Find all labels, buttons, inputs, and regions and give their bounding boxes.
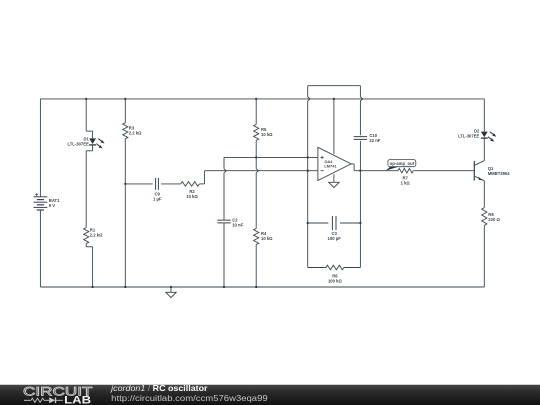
ground symbol op-amp: [329, 182, 339, 187]
logo squiggle wire mid: [44, 399, 49, 401]
junction dot output at box right: [359, 170, 361, 172]
svg-text:100 kΩ: 100 kΩ: [328, 278, 342, 283]
junction dot V+ top rail: [333, 98, 335, 100]
wire left rail (battery branch): [39, 99, 41, 197]
svg-text:9 V: 9 V: [49, 203, 55, 208]
net flag op-amp_out pointer: [386, 167, 398, 171]
svg-text:1 µF: 1 µF: [153, 196, 162, 201]
logo squiggle resistor: [31, 398, 44, 402]
wire R5 to plus line: [255, 140, 257, 157]
wire D1 jog bottom: [92, 145, 94, 150]
wire box left vertical lower: [307, 223, 309, 268]
logo squiggle wire left: [24, 399, 31, 401]
transistor Q1 emitter arrow: [478, 177, 482, 181]
wire D1 branch upper: [85, 99, 87, 131]
LED D2: [481, 132, 488, 138]
resistor R1: [84, 228, 89, 244]
junction dot box right at C3: [359, 222, 361, 224]
capacitor C10: [354, 137, 367, 140]
wire box right vertical bottom: [359, 223, 361, 268]
wire hop C2 over minus line: [224, 169, 226, 173]
wire hop box left over top rail: [308, 97, 310, 101]
resistor R4: [254, 229, 259, 245]
wire R3 branch upper: [124, 99, 126, 123]
svg-text:10 kΩ: 10 kΩ: [186, 194, 198, 199]
wire R8 to bottom rail: [483, 225, 485, 287]
wire R3 node to bottom rail: [124, 184, 126, 287]
svg-text:op-amp_out: op-amp_out: [390, 161, 415, 166]
wire C10 to output line: [359, 141, 361, 171]
junction dot plus line at R5 branch: [255, 156, 257, 158]
junction dot ground stub: [170, 286, 172, 288]
junction dot D1 top rail: [85, 98, 87, 100]
wire R5 branch upper: [255, 99, 257, 125]
LED D1: [89, 138, 96, 144]
wire Q1 emitter to R8: [483, 181, 485, 208]
wire D2 to Q1 collector: [483, 138, 485, 160]
wire R5 branch across minus line: [255, 157, 257, 168]
wire R1 to bottom jog: [85, 244, 87, 247]
junction dot R5 top rail: [255, 98, 257, 100]
resistor R3: [123, 123, 128, 139]
wire top box left vertical: [307, 86, 309, 97]
svg-text:10 kΩ: 10 kΩ: [261, 236, 273, 241]
net flag op-amp_out box: [388, 160, 416, 167]
svg-text:LM741: LM741: [324, 164, 337, 169]
svg-text:10 nF: 10 nF: [232, 223, 243, 228]
wire top box right vertical: [359, 86, 361, 97]
svg-text:2.2 kΩ: 2.2 kΩ: [129, 130, 142, 135]
wire C2 to bottom rail: [223, 223, 225, 287]
transistor Q1 collector: [474, 161, 484, 166]
wire R6 line left: [308, 267, 326, 269]
resistor R5: [254, 124, 259, 140]
junction dot R3 bottom rail: [124, 286, 126, 288]
transistor Q1 base bar: [473, 161, 475, 181]
resistor R6: [326, 265, 344, 270]
wire ground stub bottom: [170, 287, 172, 292]
svg-text:220 Ω: 220 Ω: [488, 217, 500, 222]
wire box left vertical mid: [307, 157, 309, 223]
svg-text:100 pF: 100 pF: [328, 236, 342, 241]
wire R7 to Q1 base: [413, 170, 474, 172]
wire top rail: [40, 98, 484, 100]
LED D1 emission arrows: [98, 139, 103, 143]
resistor R8: [482, 208, 487, 226]
junction dot plus line at box left: [307, 156, 309, 158]
junction dot R3/C9 node: [124, 183, 126, 185]
svg-text:LTL-307EE: LTL-307EE: [67, 142, 89, 147]
wire op-amp V+ stub: [333, 99, 335, 154]
svg-text:2.2 kΩ: 2.2 kΩ: [90, 232, 103, 237]
wire D1 jog top: [86, 130, 92, 132]
wire minus input line: [205, 170, 318, 172]
wire R6 line right: [344, 267, 361, 269]
svg-text:10 kΩ: 10 kΩ: [261, 132, 273, 137]
svg-text:LAB: LAB: [64, 395, 91, 405]
svg-text:jcordon1 / RC oscillator: jcordon1 / RC oscillator: [110, 384, 208, 393]
junction dot R3 top rail: [124, 98, 126, 100]
wire box right vertical lower: [359, 171, 361, 223]
wire C9 to R2: [161, 183, 181, 185]
logo diode: [49, 397, 55, 403]
svg-text:MMBT3904: MMBT3904: [488, 171, 511, 176]
junction dot C2 bottom rail: [223, 286, 225, 288]
svg-text:1 kΩ: 1 kΩ: [401, 180, 411, 185]
resistor R7: [398, 168, 413, 173]
wire top box horizontal: [308, 85, 361, 87]
wire hop R4 branch over minus line: [256, 169, 258, 173]
battery BAT1: [34, 196, 48, 198]
battery plus sign: [35, 193, 38, 196]
op-amp minus input marker: [321, 170, 324, 172]
svg-text:22 nF: 22 nF: [369, 138, 380, 143]
wire output line: [354, 170, 398, 172]
op-amp plus input marker: [321, 156, 324, 159]
wire C3 line right: [340, 222, 360, 224]
wire R4 to bottom rail: [255, 245, 257, 288]
resistor R2: [181, 182, 200, 187]
op-amp OA4 triangle: [318, 147, 351, 180]
wire C3 line left: [308, 222, 329, 224]
wire R2 to minus line corner: [199, 183, 204, 185]
transistor Q1 emitter: [474, 176, 484, 181]
LED D2 emission arrows: [490, 132, 495, 136]
ground symbol bottom: [166, 292, 176, 297]
wire bottom rail: [40, 286, 484, 288]
capacitor C2: [217, 220, 230, 223]
junction dot minus line at box left: [307, 170, 309, 172]
capacitor C9: [156, 178, 159, 190]
wire R3 to C9 node: [124, 139, 126, 184]
wire hop box right over top rail: [360, 97, 362, 101]
svg-text:http://circuitlab.com/ccm576w3: http://circuitlab.com/ccm576w3eqa99: [111, 394, 268, 403]
junction dot R4 bottom rail: [255, 286, 257, 288]
wire C2 branch upper: [223, 157, 225, 168]
capacitor C3: [332, 216, 336, 230]
junction dot R1 bottom rail: [91, 286, 93, 288]
wire right rail top segment: [483, 99, 485, 132]
junction dot box left at C3: [307, 222, 309, 224]
wire plus input line: [224, 156, 318, 158]
footer bar background: [0, 384, 540, 405]
wire C10 branch upper: [359, 134, 361, 136]
wire R3 node to C9: [125, 183, 153, 185]
wire op-amp ground stub: [333, 174, 335, 182]
svg-text:LTL-307EE: LTL-307EE: [458, 133, 480, 138]
wire op-amp output jog: [351, 163, 354, 165]
wire D1 to R1: [85, 151, 87, 228]
